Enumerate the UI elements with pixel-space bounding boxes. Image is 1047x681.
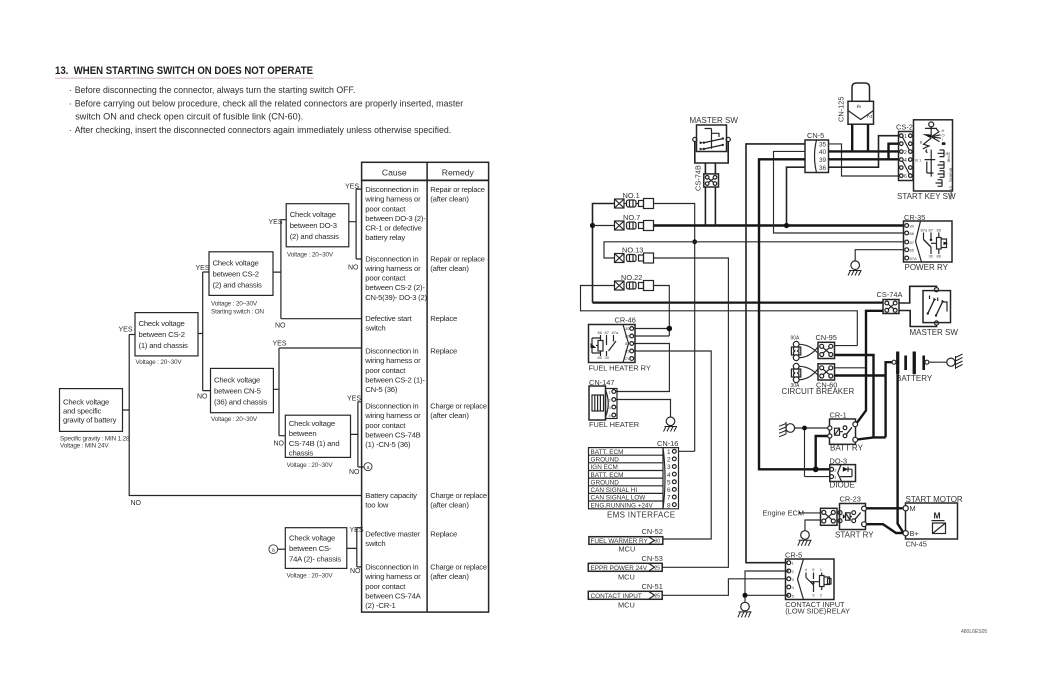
svg-text:1: 1 [792,561,795,566]
svg-text:Disconnection in: Disconnection in [365,347,418,356]
wire: CR-5 pin2 to junction, pin5 and ground [745,571,789,602]
title underline [55,78,314,79]
connector CS-74B [694,165,719,191]
svg-text:·: · [69,125,72,135]
svg-text:between CS-74A: between CS-74A [365,591,421,600]
table row 1 [364,185,485,242]
fuse NO.1 [615,191,654,208]
wire: CN-5 pin35 riser down to CR-5 pin 1 [746,144,805,563]
svg-text:CN-125: CN-125 [837,97,846,122]
svg-text:Voltage : 20~30V: Voltage : 20~30V [287,462,334,469]
svg-text:30: 30 [605,355,610,360]
svg-text:2: 2 [667,457,671,464]
svg-text:8: 8 [667,502,671,509]
svg-text:85: 85 [625,349,630,354]
svg-text:Repair or replace: Repair or replace [430,254,485,263]
svg-text:BATT RY: BATT RY [830,444,864,453]
svg-text:39: 39 [819,157,827,164]
svg-text:After checking, insert the dis: After checking, insert the disconnected … [75,125,452,135]
svg-text:Check voltage: Check voltage [290,210,336,219]
svg-text:YES: YES [345,183,359,190]
svg-text:5: 5 [792,593,795,598]
wire: CN-5 pin36 right to CS-2 pin 1 [829,136,899,168]
relay CR-23 START RY [840,494,867,529]
svg-text:CN-5: CN-5 [807,131,824,140]
wire: CR-23 bottom output to B+ (thick) [866,524,902,533]
svg-text:Replace: Replace [430,314,457,323]
svg-text:36: 36 [819,165,827,172]
svg-text:(after clean): (after clean) [430,501,469,510]
svg-text:35: 35 [819,142,827,149]
svg-text:·: · [69,98,72,108]
svg-text:CS-74A: CS-74A [877,290,903,299]
svg-text:B 1: B 1 [915,158,922,163]
wire: CS-74A right loop to MASTER SW 2 [899,286,937,326]
flow wire: box5 branch [349,189,362,259]
wire: CN-51 to CR-5 pin 3 [662,579,789,596]
svg-text:30: 30 [655,539,661,545]
svg-text:wiring harness or: wiring harness or [364,572,421,581]
svg-text:6: 6 [904,174,907,180]
relay CR-35 POWER RY [904,213,953,262]
svg-text:CR-46: CR-46 [615,316,636,325]
svg-text:CN-5(39)- DO-3 (2): CN-5(39)- DO-3 (2) [365,293,427,302]
label Engine ECM with arrow [763,509,805,518]
switch START KEY SW [914,120,953,200]
svg-text:NO.13: NO.13 [622,246,643,255]
wire: NO.22 feed bus to CN-95 breaker input [581,286,858,346]
ground (CR-1 coil) [779,422,795,437]
svg-text:CN-45: CN-45 [906,539,927,548]
cause/remedy table frame [362,162,489,612]
svg-text:Engine ECM: Engine ECM [763,509,805,518]
node a (circle) before box7 [269,545,285,554]
wire: CN-60 bottom output to battery lead (thick) [835,374,886,376]
wire: CS-74B down to NO.7 line [705,187,715,226]
svg-text:M: M [934,511,941,521]
wire: Engine ECM to CR-23 connector [802,512,821,514]
svg-text:GROUND: GROUND [591,457,620,464]
svg-text:I: I [942,137,943,142]
svg-text:Before disconnecting the conne: Before disconnecting the connector, alwa… [75,85,356,95]
svg-text:CS-74B (1) and: CS-74B (1) and [289,439,340,448]
svg-text:30: 30 [910,224,915,229]
svg-text:CN-53: CN-53 [642,554,663,563]
svg-text:wiring harness or: wiring harness or [364,195,421,204]
svg-text:Voltage : 20~30V: Voltage : 20~30V [211,300,258,307]
breaker 90A [791,335,801,360]
svg-text:too low: too low [365,501,389,510]
svg-text:YES: YES [347,395,361,402]
wire: CR-23 top output to start motor M (thick) [866,507,902,509]
svg-text:between CS-2 (2)-: between CS-2 (2)- [365,283,425,292]
ground (CN-147) [664,417,678,432]
svg-text:1: 1 [820,567,823,572]
svg-text:YES: YES [269,219,283,226]
table row 2 [364,254,485,302]
fuse NO.13 [615,246,654,263]
svg-text:switch: switch [365,539,385,548]
wire: DO-3 feed riser up to CR-1 pin2 (thick) [816,436,830,469]
svg-text:YES: YES [119,326,133,333]
flow wire: box3 branch [273,220,362,319]
svg-text:CN-5 (36): CN-5 (36) [365,385,398,394]
wire: EMS pin1 to riser [679,450,695,452]
wire: CR-46 pin 85 to CN-52 FUEL WARMER RY [634,351,712,539]
svg-text:GROUND: GROUND [591,480,620,487]
svg-text:7: 7 [667,495,671,502]
svg-text:CN-95: CN-95 [816,333,837,342]
connector CN-52 FUEL WARMER RY (MCU) [589,527,663,554]
ground (battery) [947,354,963,369]
svg-text:Before carrying out below proc: Before carrying out below procedure, che… [75,98,464,108]
svg-text:480L6ES05: 480L6ES05 [961,629,987,635]
relay CR-46 FUEL HEATER RY [589,316,636,363]
svg-text:1: 1 [667,449,671,456]
svg-text:Voltage : MIN 24V: Voltage : MIN 24V [60,443,109,450]
svg-text:Charge or replace: Charge or replace [430,402,487,411]
svg-text:START RY: START RY [835,531,874,540]
flow wire: box6 branch [351,402,365,467]
svg-text:CONTACT INPUT: CONTACT INPUT [591,593,642,600]
node a (circle) after box6 [364,463,372,471]
svg-text:1: 1 [609,390,612,395]
flow wire: box2 branch [198,272,211,391]
battery [892,352,929,375]
svg-text:MCU: MCU [619,545,636,554]
svg-text:NO: NO [274,441,285,448]
flow wire: box1 to branch [123,335,362,496]
svg-text:wiring harness or: wiring harness or [364,356,421,365]
wire: CN-95 top output (from bus riser) [835,345,858,347]
svg-text:NO: NO [197,394,208,401]
svg-text:B: B [920,140,923,145]
svg-text:(after clean): (after clean) [430,572,469,581]
svg-text:(LOW SIDE)RELAY: (LOW SIDE)RELAY [785,606,850,615]
svg-text:MCU: MCU [618,600,635,609]
connector CN-147 FUEL HEATER [589,378,617,420]
svg-text:a: a [367,465,370,471]
table row 8 [364,563,487,611]
svg-text:EPPR POWER 24V: EPPR POWER 24V [591,565,648,572]
svg-text:MASTER SW: MASTER SW [690,116,739,125]
wire: CR-35 pin 85 to ground [855,250,904,261]
wire: CN-5 pin35 right to CS-2 pin 6 [829,144,899,176]
svg-text:CIRCUIT BREAKER: CIRCUIT BREAKER [782,387,855,396]
svg-text:Charge or replace: Charge or replace [430,563,487,572]
svg-text:NO.7: NO.7 [623,213,640,222]
wire: CN-147 pin 2 to ground [616,400,671,418]
svg-text:(1) -CN-5 (36): (1) -CN-5 (36) [365,440,411,449]
table row 7 [365,530,457,549]
connector CS-74A [877,290,903,314]
junction dot pin36 riser [784,223,789,228]
connector CS-2 [896,123,913,181]
svg-text:87: 87 [910,240,915,245]
svg-text:IGN ECM: IGN ECM [591,464,618,471]
svg-text:Check voltage: Check voltage [289,534,335,543]
svg-text:Replace: Replace [430,347,457,356]
wire: battery minus lead down to CR-1 pin2 (thick) [856,362,892,440]
svg-text:between CS-2: between CS-2 [139,330,185,339]
svg-text:87A: 87A [624,356,631,361]
junction dot at CR-46 pin30 [667,326,673,332]
svg-text:(2) -CR-1: (2) -CR-1 [365,601,395,610]
svg-text:3: 3 [667,464,671,471]
svg-text:(after clean): (after clean) [430,264,469,273]
flow box 7: check CS-74A (2) [285,528,347,580]
wire: CN-125 pins down to row 40 (thick) [852,124,868,151]
svg-text:5: 5 [667,480,671,487]
svg-text:90A: 90A [791,335,801,341]
motor START MOTOR [903,495,963,539]
svg-text:between CS-: between CS- [289,544,332,553]
table row 3 [365,314,457,333]
svg-text:87A: 87A [910,256,917,261]
svg-text:6: 6 [667,487,671,494]
connector CN-5 [805,131,829,172]
svg-text:Check voltage: Check voltage [213,258,259,267]
wire: CN-5 pin36 to NO.7/CR-35 line [787,167,806,225]
svg-text:85: 85 [910,248,915,253]
svg-text:3: 3 [792,577,795,582]
svg-text:25: 25 [655,566,661,572]
svg-text:switch: switch [365,324,385,333]
svg-text:2: 2 [904,150,907,156]
svg-text:between DO-3: between DO-3 [290,221,337,230]
svg-text:Check voltage: Check voltage [214,375,260,384]
svg-text:BR(AOS): BR(AOS) [949,168,953,182]
svg-text:(after clean): (after clean) [430,411,469,420]
svg-text:NO: NO [131,500,142,507]
svg-text:YES: YES [273,341,287,348]
fuse NO.22 [615,273,654,291]
svg-text:CS-2: CS-2 [896,123,913,132]
breaker 30A [791,363,801,389]
diode DO-3 [830,457,856,482]
svg-text:poor contact: poor contact [365,582,406,591]
svg-text:20V4B: 20V4B [946,152,950,163]
svg-text:BATTERY: BATTERY [896,374,933,383]
svg-text:FUEL HEATER RY: FUEL HEATER RY [589,363,651,372]
svg-text:85: 85 [937,228,942,233]
svg-text:wiring harness or: wiring harness or [364,411,421,420]
flow box 4: check CN-5 (36) [211,368,274,423]
svg-text:CR-23: CR-23 [840,494,861,503]
svg-text:2: 2 [792,569,795,574]
ground (CR-23 coil) [798,531,812,546]
svg-text:NO: NO [349,469,360,476]
svg-text:87a: 87a [921,228,928,233]
junction dot CR-5 ground node [743,593,748,598]
wire: 90A breaker to CN-95 (crossing pair) [799,344,818,357]
connector CN-53 EPPR POWER 24V (MCU) [588,554,663,581]
svg-text:NO: NO [350,568,361,575]
wire: NO.7 output to CR-35 pin 30 (thick) [654,224,905,226]
flow box 3: check CS-2 (2) [209,252,273,315]
svg-text:2: 2 [834,467,837,472]
svg-text:(after clean): (after clean) [430,195,469,204]
svg-text:30: 30 [929,254,934,259]
svg-text:Remedy: Remedy [442,168,475,178]
connector CN-95 [816,333,837,359]
flow wire: box4 branch [273,348,361,436]
svg-text:(2) and chassis: (2) and chassis [290,232,339,241]
svg-text:4: 4 [792,585,795,590]
svg-text:chassis: chassis [289,449,314,458]
wire: connector lower pin to ground [805,520,821,531]
wire: left feed bus from NO.1 down then to CS-74A pin 1 [593,204,615,303]
svg-text:CN-16: CN-16 [657,439,678,448]
switch MASTER SW (top) [690,116,739,152]
svg-text:2: 2 [820,593,823,598]
svg-text:MCU: MCU [618,572,635,581]
wire: CN-5 pin39 right to CS-2 pins 2/4 (thick) [829,144,899,160]
svg-text:4: 4 [805,567,808,572]
svg-text:87: 87 [625,341,630,346]
svg-text:30: 30 [625,326,630,331]
connector CN-60 [816,364,837,390]
svg-text:Disconnection in: Disconnection in [365,254,418,263]
svg-text:Disconnection in: Disconnection in [365,402,418,411]
svg-text:CN-51: CN-51 [642,582,663,591]
svg-text:START KEY SW: START KEY SW [897,192,956,201]
svg-text:CAN SIGNAL LOW: CAN SIGNAL LOW [591,495,647,502]
table row 4 [364,347,457,395]
wire: NO.1 output to EMS riser [654,204,695,452]
relay CR-5 CONTACT INPUT (LOW SIDE) RELAY [785,551,834,600]
relay CR-1 BATT RY [828,411,858,445]
junction dot on CR-1 coil wire [802,426,807,431]
svg-text:YES: YES [196,265,210,272]
svg-text:3: 3 [609,405,612,410]
svg-text:87: 87 [929,228,934,233]
svg-text:ENG.RUNNING +24V: ENG.RUNNING +24V [591,502,654,509]
svg-text:(1) and chassis: (1) and chassis [139,341,188,350]
connector CN-51 CONTACT INPUT (MCU) [588,582,663,609]
table row 6 [365,491,487,510]
svg-text:Cause: Cause [382,168,407,178]
wire: NO.13 feed line to CR-35 pin 87 [604,242,904,258]
svg-text:Replace: Replace [430,530,457,539]
svg-text:Voltage : 20~30V: Voltage : 20~30V [287,573,334,580]
svg-text:86: 86 [625,334,630,339]
svg-text:13. WHEN STARTING SWITCH ON D: 13. WHEN STARTING SWITCH ON DOES NOT OPE… [55,65,313,77]
fuse NO.7 [593,213,654,231]
svg-text:BATT. ECM: BATT. ECM [591,472,624,479]
svg-text:Defective start: Defective start [365,314,412,323]
svg-text:M: M [910,504,916,513]
svg-text:87a: 87a [612,330,619,335]
svg-text:Check voltage: Check voltage [63,397,109,406]
wire: CN-5 pin39 riser to diode DO-3 pin 2 (thick) [759,159,830,469]
svg-text:gravity of battery: gravity of battery [63,415,117,424]
junction dot on diode feed line [813,466,819,472]
flow box 6: check CS-74B (1) [285,415,350,469]
svg-text:CAN SIGNAL HI: CAN SIGNAL HI [591,487,638,494]
svg-text:74A (2)- chassis: 74A (2)- chassis [289,555,341,564]
svg-text:MASTER SW: MASTER SW [910,328,959,337]
svg-text:switch ON and check open circu: switch ON and check open circuit of fusi… [75,112,303,122]
svg-text:3: 3 [812,593,815,598]
svg-text:1: 1 [834,475,837,480]
svg-text:CS-74B: CS-74B [694,165,703,191]
svg-text:poor contact: poor contact [365,204,406,213]
svg-text:a: a [272,548,275,554]
junction dot left bus at NO.7 [590,223,595,228]
flow box 1: check battery [60,389,130,450]
wire: CR-46 pin 87 to CN-147 pin 1 [616,344,669,392]
svg-text:poor contact: poor contact [365,366,406,375]
svg-text:Check voltage: Check voltage [139,319,185,328]
svg-text:Voltage : 20~30V: Voltage : 20~30V [211,416,258,423]
flow wire: box7 branch [347,528,362,567]
svg-text:FUEL HEATER: FUEL HEATER [589,420,639,429]
wire: CN-5 pin40 to CR-35 pin 86 [774,151,905,233]
svg-text:between CS-2 (1)-: between CS-2 (1)- [365,375,425,384]
svg-text:Voltage : 20~30V: Voltage : 20~30V [287,252,334,259]
svg-text:CR-1 or defective: CR-1 or defective [365,224,421,233]
svg-text:between CN-5: between CN-5 [214,386,261,395]
svg-text:NO: NO [275,323,286,330]
svg-text:4: 4 [667,472,671,479]
svg-text:25: 25 [655,594,661,600]
svg-text:Battery capacity: Battery capacity [365,491,417,500]
svg-text:4: 4 [904,158,907,164]
svg-text:between CS-2: between CS-2 [213,269,259,278]
svg-text:CN-52: CN-52 [642,527,663,536]
ground (CR-5) [738,602,752,617]
junction dot NO.1 riser x NO.13 line [692,239,697,244]
wire: CS-74A pin2 bus down to CR-1 pin (thick) [856,311,883,425]
svg-text:B+: B+ [910,529,919,538]
svg-text:battery relay: battery relay [365,233,405,242]
svg-text:(36) and chassis: (36) and chassis [214,397,268,406]
svg-text:NO.1: NO.1 [623,191,640,200]
wire: battery right to ground [929,361,947,363]
svg-text:4: 4 [855,105,862,109]
svg-text:4: 4 [609,413,612,418]
wire: battery plus plate down to start motor B+ (thick) [898,374,904,533]
svg-text:Repair or replace: Repair or replace [430,185,485,194]
svg-text:Check voltage: Check voltage [289,419,335,428]
svg-text:86: 86 [598,330,603,335]
svg-text:BATT. ECM: BATT. ECM [591,449,624,456]
svg-text:Charge or replace: Charge or replace [430,491,487,500]
ground (CR-35 pin 85) [848,261,862,276]
svg-text:40: 40 [819,149,827,156]
svg-text:Starting switch : ON: Starting switch : ON [211,308,264,315]
svg-text:·: · [69,85,72,95]
svg-text:NO: NO [348,265,359,272]
svg-text:Disconnection in: Disconnection in [365,563,418,572]
wire: NO.13 output riser to CN-53 EPPR [654,258,729,567]
svg-text:Defective master: Defective master [365,530,420,539]
wire: ground circle to CR-1 pin1, with branch down to DO-3 pin1 [795,428,830,477]
svg-text:Voltage : 20~30V: Voltage : 20~30V [136,359,183,366]
switch MASTER SW (right) [923,288,951,326]
wire: CN-95 bottom output to CR-1 area (thick) [835,355,874,437]
wire: CN-5 pin40 right to CS-2 pin 3 (thick) [829,150,899,152]
svg-text:Specific gravity : MIN 1.28: Specific gravity : MIN 1.28 [60,435,130,442]
svg-text:between CS-74B: between CS-74B [365,430,420,439]
fusible link CN-125 [837,83,874,124]
flow box 5: check DO-3 (2) [286,204,349,259]
flow box 2: check CS-2 (1) [135,313,198,367]
svg-text:EMS INTERFACE: EMS INTERFACE [607,510,675,519]
wire: 30A breaker to CN-60 (crossing pair) [799,366,818,379]
svg-text:2: 2 [609,398,612,403]
